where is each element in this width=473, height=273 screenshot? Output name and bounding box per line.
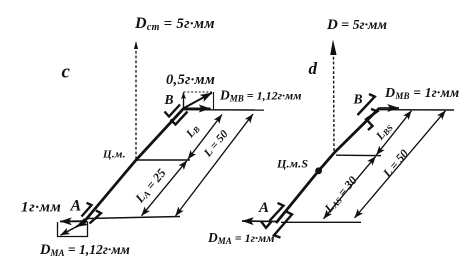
C.m.-level reference line (fig c): [136, 159, 190, 161]
svg-text:A: A: [258, 200, 269, 216]
dashed vertical arrow D_ct (fig c): [135, 46, 137, 160]
force rectangle at A (fig c): [58, 222, 88, 237]
beam c: [83, 108, 184, 223]
horizontal component arrow at B (fig c): [184, 108, 211, 110]
support bracket at A (fig c): [82, 203, 102, 224]
center of mass dot S (fig d): [315, 167, 322, 174]
svg-text:Ц.м.: Ц.м.: [102, 149, 126, 161]
dimension L = 50 (fig c): [176, 114, 254, 216]
support bracket at B (fig c): [165, 105, 188, 125]
svg-text:DМА = 1г·мм: DМА = 1г·мм: [207, 230, 274, 246]
beam d: [276, 108, 380, 223]
svg-text:Dст = 5г·мм: Dст = 5г·мм: [134, 15, 215, 33]
svg-text:D = 5г·мм: D = 5г·мм: [326, 17, 387, 33]
dimension L_BS (fig d): [376, 111, 411, 155]
dimension L_AS = 30 (fig d): [324, 156, 376, 218]
dimension L_A = 25 (fig c): [142, 161, 188, 216]
svg-text:DМВ = 1г·мм: DМВ = 1г·мм: [384, 85, 459, 101]
support bracket at B (fig d): [358, 94, 378, 130]
svg-text:d: d: [309, 59, 318, 78]
svg-text:c: c: [62, 62, 71, 83]
dimension L = 50 (fig d): [355, 111, 446, 218]
support bracket at A (fig d): [261, 203, 292, 238]
B-level reference line (fig c): [184, 109, 264, 111]
resultant diagonal arrow D_MA (fig c): [76, 221, 87, 227]
parallelogram dashed edges at B (fig c): [184, 91, 214, 93]
S-level reference line (fig d): [336, 154, 381, 156]
svg-text:0,5г·мм: 0,5г·мм: [166, 72, 215, 88]
dashed vertical arrow D (fig d): [333, 52, 336, 152]
force arrow 1g·mm at A (fig d): [242, 220, 277, 223]
resultant diagonal arrow at B (fig c): [184, 93, 212, 108]
svg-text:A: A: [70, 198, 82, 215]
svg-text:Ц.м.S: Ц.м.S: [276, 157, 308, 171]
A-level reference line (fig d): [281, 221, 361, 223]
svg-text:B: B: [164, 92, 174, 107]
dimension L_B (fig c): [188, 115, 222, 160]
svg-text:1г·мм: 1г·мм: [21, 200, 61, 216]
A-level reference line (fig c): [88, 217, 180, 219]
force arrow D_MB at B (fig d): [380, 107, 400, 109]
vertical component arrow 0,5g·mm at B: [183, 93, 185, 109]
svg-text:B: B: [353, 92, 363, 107]
horizontal component arrow 1g·mm at A (fig c): [60, 220, 87, 222]
B-level reference line (fig d): [380, 109, 455, 111]
